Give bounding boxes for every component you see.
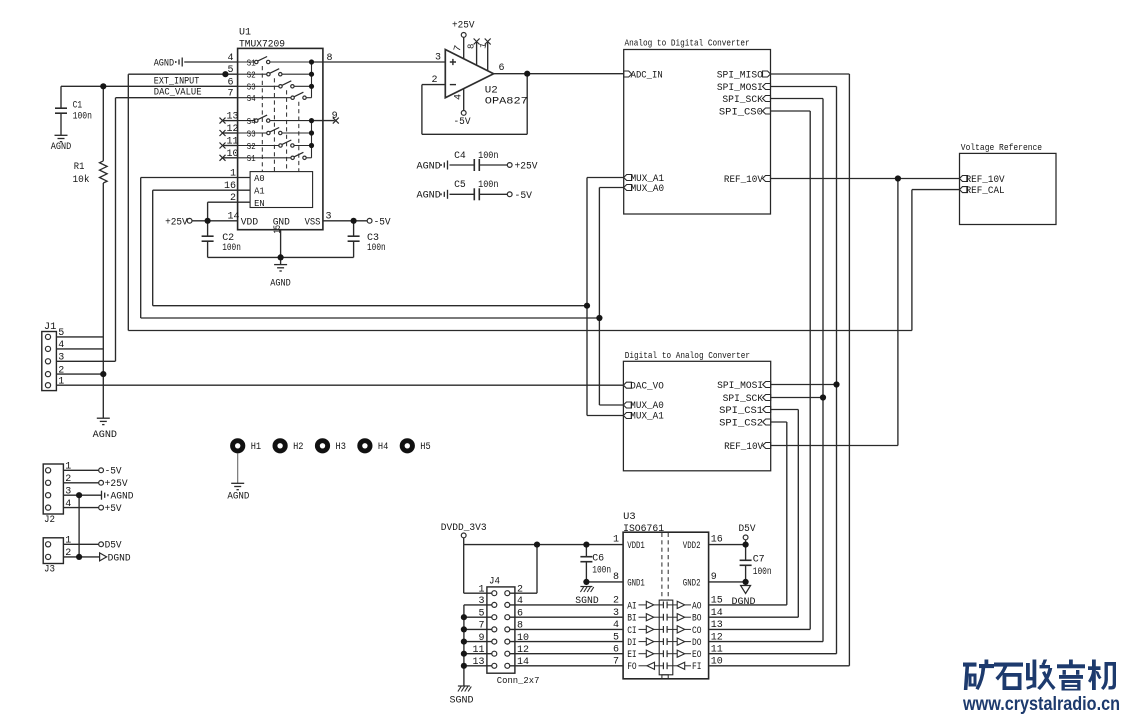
svg-text:15: 15 bbox=[273, 225, 284, 234]
svg-text:11: 11 bbox=[472, 645, 484, 656]
svg-text:VSS: VSS bbox=[305, 217, 321, 228]
svg-text:+25V: +25V bbox=[165, 217, 188, 228]
svg-text:H2: H2 bbox=[293, 442, 303, 453]
svg-text:Voltage Reference: Voltage Reference bbox=[961, 143, 1042, 153]
svg-text:BI: BI bbox=[627, 614, 637, 625]
svg-text:1: 1 bbox=[230, 169, 236, 180]
svg-text:H5: H5 bbox=[420, 442, 430, 453]
svg-text:SPI_MISO: SPI_MISO bbox=[717, 70, 763, 81]
svg-text:16: 16 bbox=[224, 181, 236, 192]
svg-text:2: 2 bbox=[65, 548, 71, 559]
svg-text:1: 1 bbox=[58, 376, 64, 387]
svg-text:100n: 100n bbox=[367, 243, 386, 254]
svg-text:7: 7 bbox=[478, 621, 484, 632]
svg-text:DAC_VALUE: DAC_VALUE bbox=[154, 88, 202, 99]
svg-text:S4: S4 bbox=[247, 116, 256, 127]
svg-text:2: 2 bbox=[65, 474, 71, 485]
svg-text:100n: 100n bbox=[478, 151, 498, 162]
svg-text:3: 3 bbox=[65, 487, 71, 498]
svg-text:12: 12 bbox=[517, 645, 529, 656]
svg-text:4: 4 bbox=[227, 53, 233, 64]
svg-text:8: 8 bbox=[327, 53, 333, 64]
svg-text:R1: R1 bbox=[74, 162, 85, 173]
svg-text:Analog to Digital Converter: Analog to Digital Converter bbox=[625, 38, 750, 48]
svg-text:AI: AI bbox=[627, 601, 637, 612]
svg-text:SPI_CS1: SPI_CS1 bbox=[719, 406, 763, 417]
svg-text:CO: CO bbox=[692, 626, 702, 637]
svg-text:9: 9 bbox=[332, 111, 338, 122]
svg-text:100n: 100n bbox=[753, 567, 772, 578]
svg-text:3: 3 bbox=[435, 52, 441, 63]
svg-text:U2: U2 bbox=[485, 86, 498, 97]
svg-text:2: 2 bbox=[517, 584, 523, 595]
svg-text:Digital to Analog Converter: Digital to Analog Converter bbox=[625, 351, 750, 361]
svg-text:8: 8 bbox=[613, 572, 619, 583]
svg-text:3: 3 bbox=[326, 212, 332, 223]
svg-text:BO: BO bbox=[692, 614, 702, 625]
svg-text:REF_10V: REF_10V bbox=[724, 175, 763, 186]
svg-text:FI: FI bbox=[692, 662, 702, 673]
svg-text:U3: U3 bbox=[623, 512, 636, 523]
svg-text:C4: C4 bbox=[454, 151, 466, 162]
svg-text:www.crystalradio.cn: www.crystalradio.cn bbox=[962, 693, 1120, 715]
svg-text:AGND: AGND bbox=[270, 279, 291, 290]
svg-text:S1: S1 bbox=[247, 57, 256, 68]
svg-text:100n: 100n bbox=[592, 566, 611, 577]
svg-text:13: 13 bbox=[711, 620, 723, 631]
svg-text:DGND: DGND bbox=[732, 597, 756, 608]
svg-text:6: 6 bbox=[499, 63, 505, 74]
svg-text:DO: DO bbox=[692, 638, 702, 649]
svg-text:C1: C1 bbox=[73, 101, 83, 112]
svg-text:AGND: AGND bbox=[154, 58, 175, 69]
svg-text:J4: J4 bbox=[489, 577, 500, 588]
svg-text:5: 5 bbox=[58, 328, 64, 339]
svg-text:100n: 100n bbox=[222, 243, 241, 254]
svg-text:-5V: -5V bbox=[105, 467, 122, 478]
svg-text:C5: C5 bbox=[454, 180, 466, 191]
svg-text:+25V: +25V bbox=[452, 21, 475, 32]
svg-text:S3: S3 bbox=[247, 82, 256, 93]
svg-text:EO: EO bbox=[692, 650, 702, 661]
svg-text:13: 13 bbox=[472, 657, 484, 668]
svg-text:VDD2: VDD2 bbox=[683, 541, 701, 552]
svg-text:J1: J1 bbox=[44, 322, 57, 333]
svg-text:12: 12 bbox=[226, 124, 238, 135]
svg-text:S4: S4 bbox=[247, 93, 256, 104]
svg-text:SPI_SCK: SPI_SCK bbox=[722, 95, 763, 106]
svg-text:S2: S2 bbox=[247, 70, 256, 81]
svg-text:10k: 10k bbox=[73, 174, 90, 186]
svg-text:11: 11 bbox=[226, 137, 238, 148]
svg-text:SPI_CS2: SPI_CS2 bbox=[719, 418, 763, 429]
svg-text:CI: CI bbox=[627, 626, 637, 637]
svg-text:9: 9 bbox=[711, 572, 717, 583]
svg-text:3: 3 bbox=[58, 353, 64, 364]
svg-text:-5V: -5V bbox=[515, 191, 533, 202]
svg-text:U1: U1 bbox=[239, 28, 251, 39]
svg-text:J2: J2 bbox=[44, 515, 55, 526]
svg-text:AGND: AGND bbox=[417, 191, 441, 202]
svg-text:7: 7 bbox=[613, 657, 619, 668]
svg-text:ISO6761: ISO6761 bbox=[623, 524, 664, 535]
svg-text:A0: A0 bbox=[254, 173, 265, 184]
svg-text:EN: EN bbox=[254, 198, 265, 209]
svg-text:5: 5 bbox=[227, 65, 233, 76]
svg-text:C7: C7 bbox=[753, 555, 765, 566]
svg-text:DI: DI bbox=[627, 638, 637, 649]
svg-text:100n: 100n bbox=[478, 180, 498, 191]
svg-text:1: 1 bbox=[613, 535, 619, 546]
svg-text:10: 10 bbox=[711, 657, 723, 668]
svg-text:4: 4 bbox=[453, 94, 464, 100]
svg-text:4: 4 bbox=[613, 620, 619, 631]
svg-text:10: 10 bbox=[226, 149, 238, 160]
svg-text:1: 1 bbox=[65, 536, 71, 547]
svg-text:2: 2 bbox=[431, 75, 437, 86]
svg-text:7: 7 bbox=[227, 89, 233, 100]
svg-text:15: 15 bbox=[711, 596, 723, 607]
svg-text:AGND: AGND bbox=[51, 142, 72, 153]
svg-text:SPI_MOSI: SPI_MOSI bbox=[717, 381, 763, 392]
svg-text:9: 9 bbox=[478, 633, 484, 644]
svg-text:D5V: D5V bbox=[739, 524, 756, 535]
svg-text:AGND: AGND bbox=[227, 492, 249, 503]
svg-text:2: 2 bbox=[58, 365, 64, 376]
svg-text:-5V: -5V bbox=[454, 117, 471, 128]
svg-text:-5V: -5V bbox=[374, 217, 391, 228]
svg-text:+25V: +25V bbox=[105, 479, 128, 490]
svg-text:MUX_A0: MUX_A0 bbox=[631, 184, 665, 195]
svg-text:H4: H4 bbox=[378, 442, 388, 453]
svg-text:GND2: GND2 bbox=[683, 578, 701, 589]
svg-text:3: 3 bbox=[478, 596, 484, 607]
svg-text:REF_CAL: REF_CAL bbox=[966, 186, 1005, 197]
svg-text:16: 16 bbox=[711, 535, 723, 546]
svg-text:SGND: SGND bbox=[450, 695, 474, 706]
svg-text:TMUX7209: TMUX7209 bbox=[239, 40, 285, 51]
svg-text:Conn_2x7: Conn_2x7 bbox=[497, 675, 540, 686]
svg-text:DAC_VO: DAC_VO bbox=[630, 381, 664, 392]
svg-text:S2: S2 bbox=[247, 141, 256, 152]
svg-text:8: 8 bbox=[517, 621, 523, 632]
svg-text:VDD: VDD bbox=[241, 217, 258, 228]
svg-text:6: 6 bbox=[517, 608, 523, 619]
svg-text:5: 5 bbox=[613, 632, 619, 643]
svg-text:14: 14 bbox=[711, 608, 723, 619]
svg-text:DVDD_3V3: DVDD_3V3 bbox=[441, 523, 487, 534]
svg-text:14: 14 bbox=[517, 657, 529, 668]
svg-text:S3: S3 bbox=[247, 128, 256, 139]
svg-text:11: 11 bbox=[711, 645, 723, 656]
svg-text:SPI_SCK: SPI_SCK bbox=[723, 394, 764, 405]
svg-text:D5V: D5V bbox=[105, 541, 122, 552]
svg-text:AGND: AGND bbox=[111, 492, 134, 503]
svg-text:4: 4 bbox=[58, 340, 64, 351]
svg-text:AGND: AGND bbox=[417, 161, 441, 172]
svg-text:J3: J3 bbox=[44, 564, 55, 575]
svg-text:GND1: GND1 bbox=[627, 578, 645, 589]
svg-text:REF_10V: REF_10V bbox=[724, 442, 763, 453]
svg-text:4: 4 bbox=[517, 596, 523, 607]
svg-text:10: 10 bbox=[517, 633, 529, 644]
svg-text:100n: 100n bbox=[73, 112, 92, 123]
svg-text:OPA827: OPA827 bbox=[485, 97, 528, 108]
svg-text:VDD1: VDD1 bbox=[627, 541, 645, 552]
svg-text:4: 4 bbox=[65, 499, 71, 510]
svg-text:A1: A1 bbox=[254, 186, 265, 197]
svg-text:EXT_INPUT: EXT_INPUT bbox=[154, 76, 200, 87]
svg-text:MUX_A1: MUX_A1 bbox=[630, 412, 664, 423]
svg-text:DGND: DGND bbox=[108, 553, 131, 564]
svg-text:3: 3 bbox=[613, 608, 619, 619]
svg-text:SPI_MOSI: SPI_MOSI bbox=[717, 83, 763, 94]
svg-text:SPI_CS0: SPI_CS0 bbox=[719, 107, 763, 118]
svg-text:AGND: AGND bbox=[93, 430, 117, 441]
svg-text:S1: S1 bbox=[247, 153, 256, 164]
svg-text:C6: C6 bbox=[592, 554, 604, 565]
svg-text:2: 2 bbox=[230, 193, 236, 204]
svg-text:REF_10V: REF_10V bbox=[966, 175, 1005, 186]
svg-text:5: 5 bbox=[478, 608, 484, 619]
svg-text:12: 12 bbox=[711, 632, 723, 643]
svg-text:H1: H1 bbox=[251, 442, 261, 453]
svg-text:SGND: SGND bbox=[575, 596, 598, 607]
svg-text:AO: AO bbox=[692, 601, 702, 612]
svg-text:14: 14 bbox=[227, 212, 239, 223]
svg-text:1: 1 bbox=[65, 462, 71, 473]
svg-text:6: 6 bbox=[613, 645, 619, 656]
svg-text:8: 8 bbox=[467, 44, 477, 49]
svg-text:H3: H3 bbox=[336, 442, 346, 453]
svg-text:1: 1 bbox=[478, 584, 484, 595]
svg-text:+5V: +5V bbox=[105, 504, 122, 515]
svg-text:ADC_IN: ADC_IN bbox=[631, 70, 663, 81]
svg-text:2: 2 bbox=[613, 596, 619, 607]
svg-text:EI: EI bbox=[627, 650, 637, 661]
svg-text:6: 6 bbox=[227, 77, 233, 88]
svg-text:FO: FO bbox=[627, 662, 637, 673]
svg-text:+25V: +25V bbox=[515, 162, 538, 173]
svg-text:MUX_A0: MUX_A0 bbox=[630, 401, 664, 412]
svg-text:13: 13 bbox=[226, 112, 238, 123]
